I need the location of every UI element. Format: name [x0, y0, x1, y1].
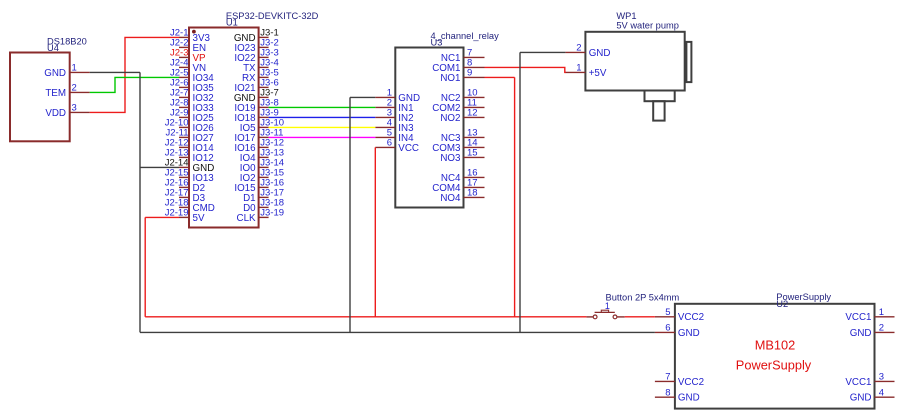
svg-text:9: 9 — [467, 68, 472, 79]
svg-text:VCC2: VCC2 — [678, 377, 704, 388]
svg-text:Button 2P 5x4mm: Button 2P 5x4mm — [606, 292, 680, 302]
svg-text:J3-19: J3-19 — [260, 208, 284, 219]
svg-text:18: 18 — [467, 188, 478, 199]
svg-text:VCC1: VCC1 — [845, 312, 871, 323]
svg-text:1: 1 — [72, 63, 77, 74]
svg-text:8: 8 — [665, 387, 670, 398]
svg-text:1: 1 — [879, 307, 884, 318]
svg-text:7: 7 — [665, 372, 670, 383]
svg-text:VDD: VDD — [45, 108, 66, 119]
svg-text:3: 3 — [72, 103, 77, 114]
svg-text:ESP32-DEVKITC-32D: ESP32-DEVKITC-32D — [226, 11, 319, 21]
svg-text:2: 2 — [576, 43, 581, 54]
svg-text:NO3: NO3 — [440, 153, 461, 164]
svg-text:VCC: VCC — [398, 143, 419, 154]
svg-text:U1: U1 — [226, 18, 238, 28]
svg-text:VCC2: VCC2 — [678, 312, 704, 323]
svg-text:U3: U3 — [431, 37, 443, 47]
svg-text:NO1: NO1 — [440, 73, 460, 84]
svg-text:NO2: NO2 — [440, 113, 460, 124]
svg-text:PowerSupply: PowerSupply — [736, 357, 812, 372]
svg-text:CLK: CLK — [237, 213, 257, 224]
svg-text:4: 4 — [879, 387, 884, 398]
svg-text:2: 2 — [879, 323, 884, 334]
svg-text:TEM: TEM — [45, 88, 66, 99]
svg-text:1: 1 — [576, 63, 581, 74]
svg-text:GND: GND — [678, 328, 700, 339]
svg-text:GND: GND — [850, 393, 872, 404]
svg-text:NO4: NO4 — [440, 193, 461, 204]
svg-text:U4: U4 — [47, 43, 59, 53]
svg-text:GND: GND — [850, 328, 872, 339]
svg-text:U2: U2 — [776, 299, 788, 309]
svg-text:6: 6 — [387, 138, 392, 149]
svg-text:5V: 5V — [193, 213, 205, 224]
svg-text:3: 3 — [879, 372, 884, 383]
svg-text:6: 6 — [665, 323, 670, 334]
svg-text:5V water pump: 5V water pump — [616, 20, 679, 30]
svg-text:2: 2 — [72, 83, 77, 94]
svg-text:15: 15 — [467, 148, 478, 159]
svg-text:+5V: +5V — [589, 68, 607, 79]
svg-text:5: 5 — [665, 307, 670, 318]
svg-text:GND: GND — [678, 393, 700, 404]
svg-text:GND: GND — [589, 48, 611, 59]
svg-text:VCC1: VCC1 — [845, 377, 871, 388]
svg-text:GND: GND — [44, 68, 66, 79]
svg-text:MB102: MB102 — [755, 337, 796, 352]
svg-text:12: 12 — [467, 108, 478, 119]
